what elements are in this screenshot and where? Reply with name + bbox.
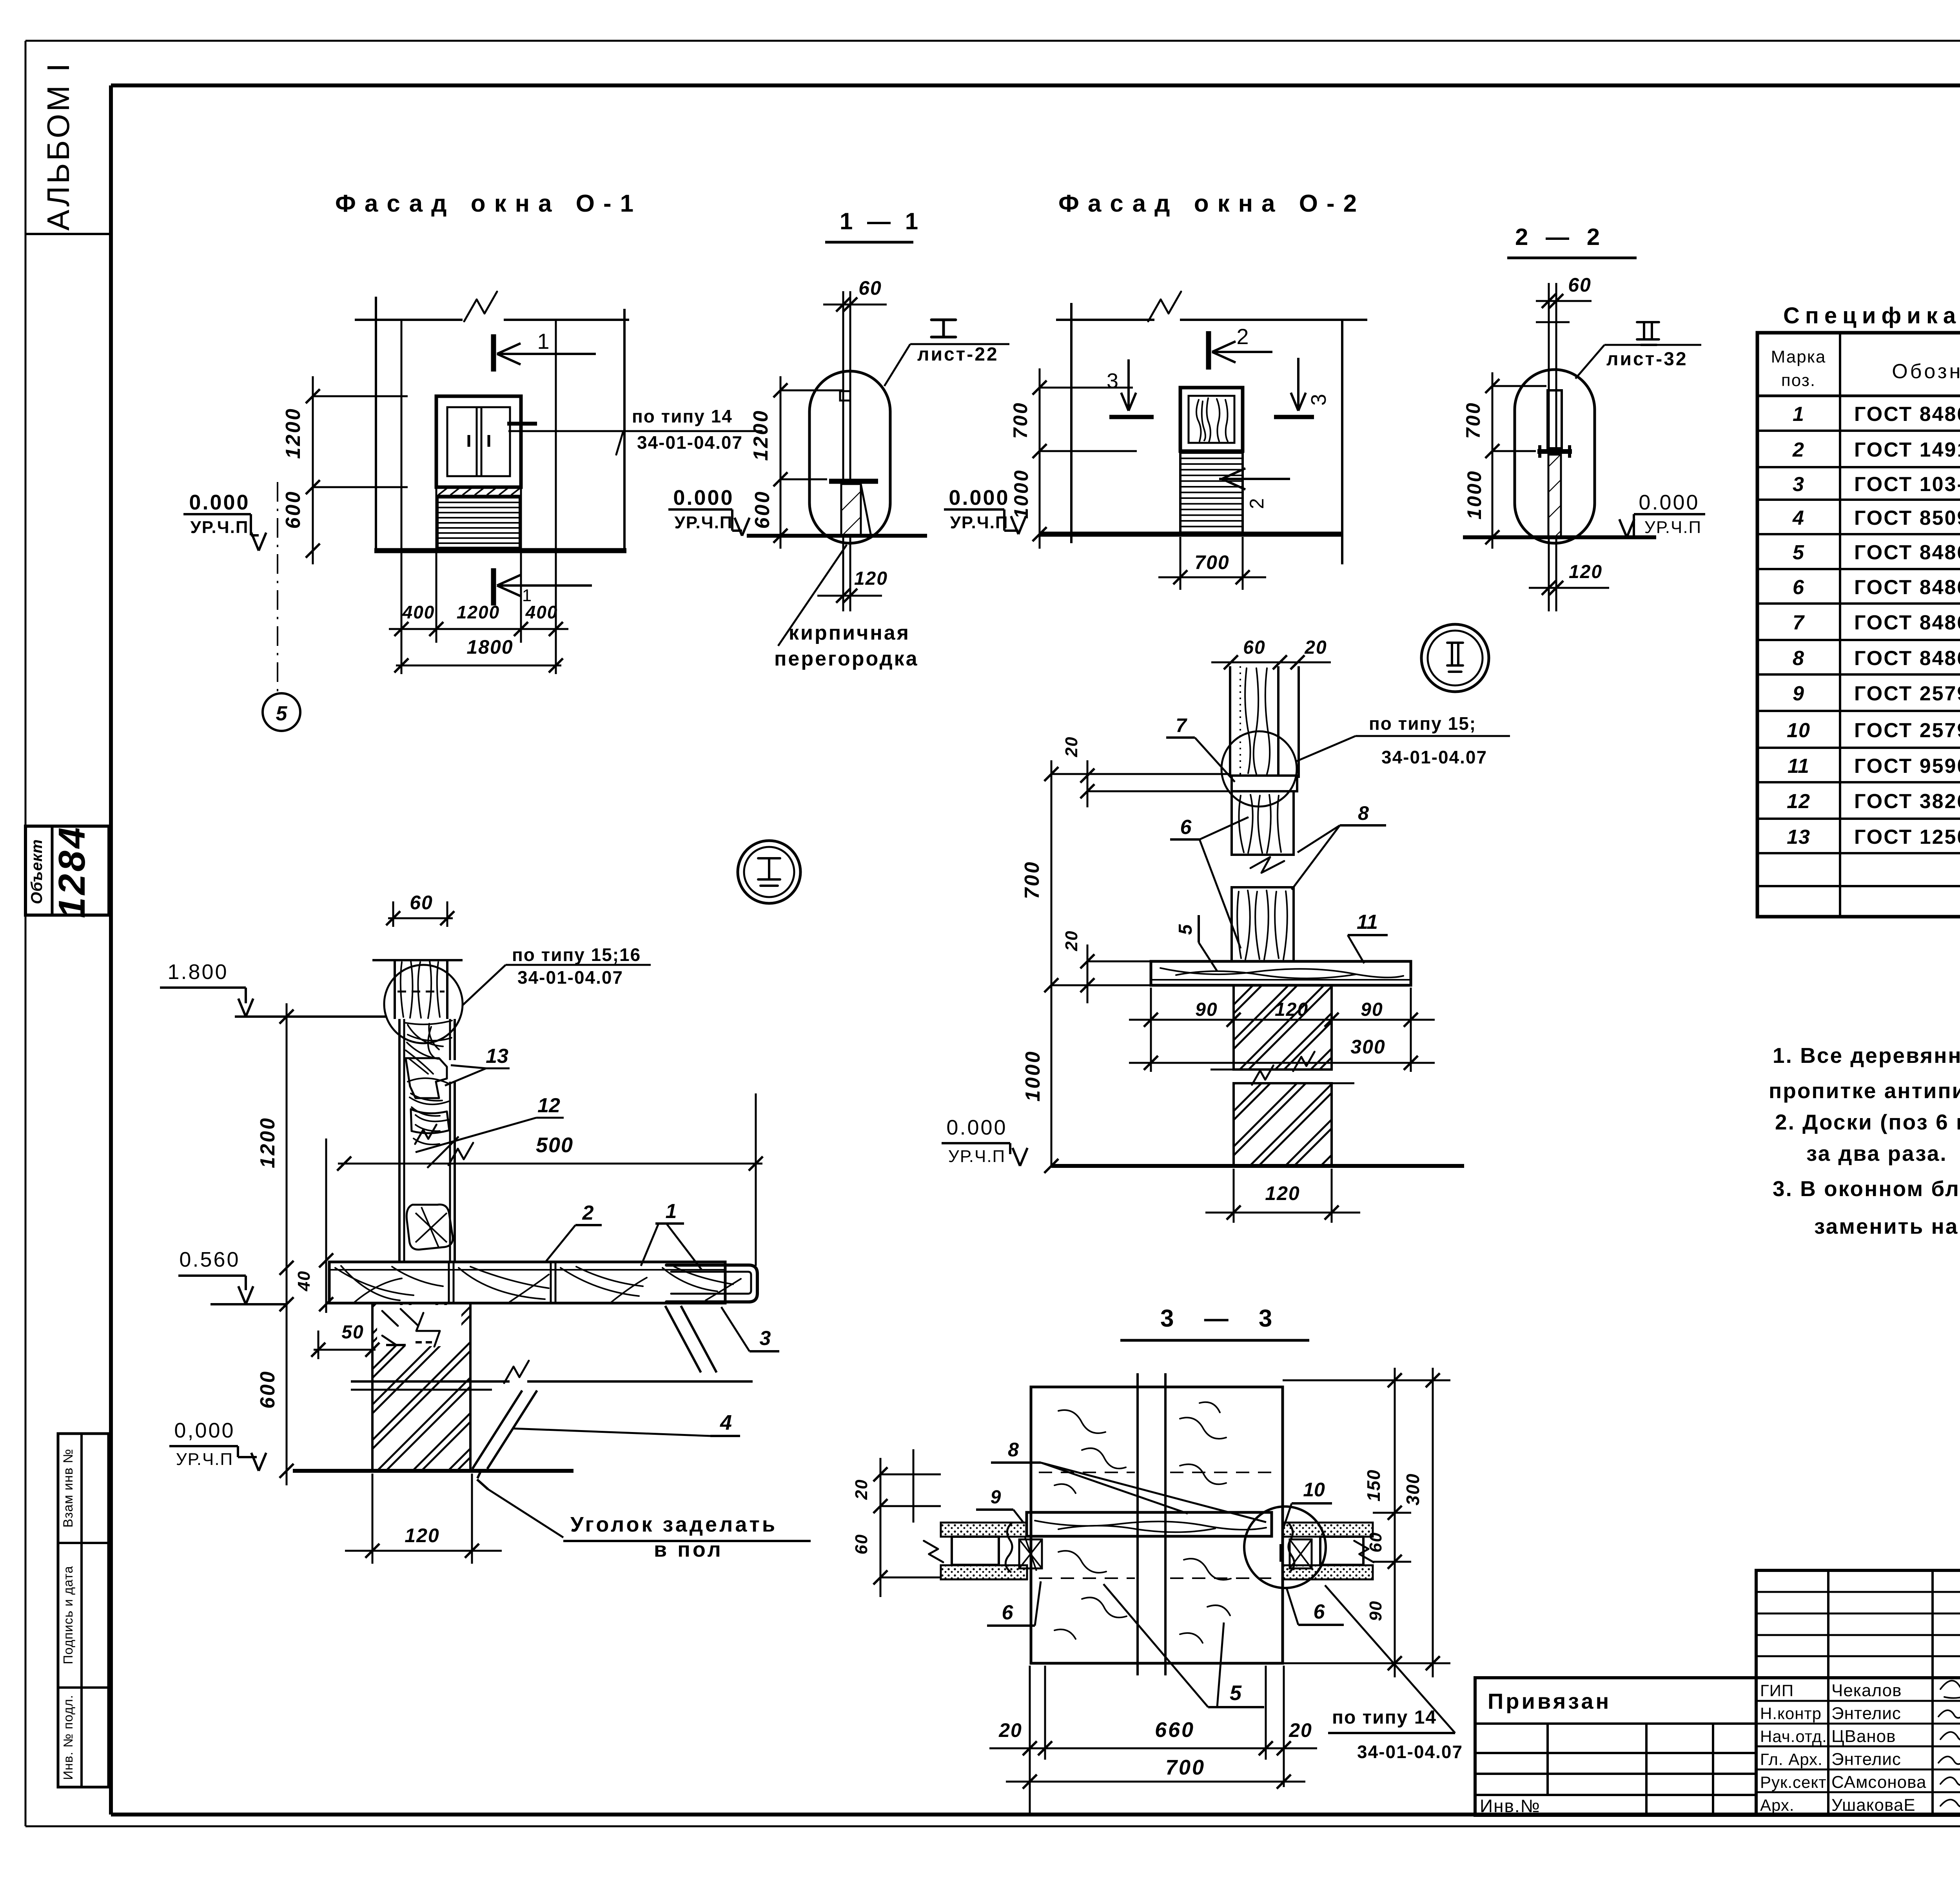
svg-text:Энтелис: Энтелис xyxy=(1831,1704,1901,1723)
facade O-2 bottom dim 700 xyxy=(1180,537,1181,590)
facade O-1 louver panel xyxy=(437,497,520,548)
detail II pier hatch upper xyxy=(1234,985,1332,1070)
svg-text:500: 500 xyxy=(536,1133,573,1157)
svg-text:600: 600 xyxy=(256,1370,279,1409)
axis circle node 5 xyxy=(263,693,300,731)
detail I strut upper piece xyxy=(665,1306,701,1372)
svg-text:9: 9 xyxy=(1793,682,1804,705)
facade O-2 window wood grain xyxy=(1196,400,1201,441)
svg-text:4: 4 xyxy=(720,1411,732,1434)
svg-text:1: 1 xyxy=(1793,403,1804,426)
svg-text:Спецификация элементов на о: Спецификация элементов на окна О-1 и О-2 xyxy=(1783,303,1960,328)
3-3 left wall band bottom xyxy=(941,1565,1027,1579)
detail I lintel top line xyxy=(372,959,463,961)
facade O-2 window frame with glass xyxy=(1180,388,1243,451)
svg-text:Н.контр: Н.контр xyxy=(1760,1704,1822,1723)
facade O-2 mark 3 left arrow xyxy=(1127,359,1130,408)
facade O-2 ground line xyxy=(1040,532,1342,537)
detail I floor lines xyxy=(351,1380,510,1383)
svg-text:1200: 1200 xyxy=(256,1117,279,1168)
svg-text:Арх.: Арх. xyxy=(1760,1796,1795,1815)
svg-text:400: 400 xyxy=(402,602,435,622)
svg-text:6: 6 xyxy=(1314,1601,1325,1623)
svg-text:700: 700 xyxy=(1194,551,1229,573)
detail II top rail board xyxy=(1232,776,1297,791)
svg-text:2: 2 xyxy=(1792,439,1804,461)
svg-text:3 — 3: 3 — 3 xyxy=(1160,1305,1284,1332)
svg-text:ГОСТ 8509-72: ГОСТ 8509-72 xyxy=(1854,507,1960,529)
svg-text:60: 60 xyxy=(410,892,433,914)
detail I latch box lower xyxy=(407,1205,453,1250)
section 2-2 sill T-bar xyxy=(1537,449,1572,454)
facade O-2 section cut 2 top xyxy=(1206,331,1211,370)
facade O-1 sill strip xyxy=(436,487,521,496)
detail I window board (столярная плита) xyxy=(329,1262,725,1303)
svg-text:ГОСТ 8486 -66: ГОСТ 8486 -66 xyxy=(1854,647,1960,670)
facade O-1 left dim line 1200/600 xyxy=(312,376,314,564)
svg-text:120: 120 xyxy=(854,568,888,589)
detail II upper door panel wood xyxy=(1232,791,1294,855)
detail II detail circle xyxy=(1221,731,1297,807)
svg-text:20: 20 xyxy=(1289,1719,1312,1741)
svg-text:1 — 1: 1 — 1 xyxy=(840,208,922,234)
svg-text:9: 9 xyxy=(991,1487,1001,1508)
svg-text:5: 5 xyxy=(1175,924,1196,935)
svg-text:0.000: 0.000 xyxy=(1639,491,1699,514)
3-3 left board end in wall xyxy=(952,1537,999,1565)
svg-text:4: 4 xyxy=(1792,507,1804,529)
svg-text:ГОСТ 8486-66: ГОСТ 8486-66 xyxy=(1854,576,1960,599)
node circle I xyxy=(738,841,800,903)
svg-text:20: 20 xyxy=(852,1479,871,1500)
svg-text:УшаковаЕ: УшаковаЕ xyxy=(1831,1796,1916,1815)
svg-text:1.800: 1.800 xyxy=(167,960,228,984)
svg-text:АЛЬБОМ I: АЛЬБОМ I xyxy=(41,61,76,230)
detail I diagonal strut 4 xyxy=(472,1390,522,1469)
3-3 right wall band top xyxy=(1283,1523,1373,1537)
detail I pier top notch xyxy=(377,1305,461,1346)
svg-text:1000: 1000 xyxy=(1010,469,1032,518)
svg-text:Чекалов: Чекалов xyxy=(1831,1681,1902,1700)
3-3 dashed hidden lines xyxy=(1039,1472,1135,1473)
svg-text:ГОСТ 25797- 83: ГОСТ 25797- 83 xyxy=(1854,719,1960,742)
svg-text:ГОСТ 103- 76: ГОСТ 103- 76 xyxy=(1854,473,1960,496)
facade O-2 left dim 700/1000 xyxy=(1039,368,1041,549)
sheet outer border xyxy=(25,40,1960,42)
svg-text:13: 13 xyxy=(1787,826,1810,848)
svg-text:ГОСТ 9590 - 76: ГОСТ 9590 - 76 xyxy=(1854,755,1960,778)
sidebar АЛЬБОМ I box xyxy=(25,233,111,235)
section 2-2 capsule outline xyxy=(1515,370,1595,543)
svg-text:5: 5 xyxy=(1230,1681,1242,1705)
svg-text:8: 8 xyxy=(1793,647,1804,670)
3-3 glass reflection waves xyxy=(1054,1410,1126,1493)
section 1-1 hinge block xyxy=(840,391,850,401)
3-3 left wall band top xyxy=(941,1523,1027,1537)
svg-text:1200: 1200 xyxy=(457,602,500,622)
svg-text:по типу 15;16: по типу 15;16 xyxy=(512,944,641,965)
detail I wood grain fans upper xyxy=(406,1021,452,1074)
facade O-2 wall right edge xyxy=(1341,320,1343,564)
facade O-2 louver panel xyxy=(1180,453,1243,533)
svg-text:3: 3 xyxy=(760,1327,771,1350)
detail I dim 1200 vertical xyxy=(286,1003,288,1282)
facade O-2 wall left edge xyxy=(1070,303,1073,543)
svg-text:перегородка: перегородка xyxy=(774,647,919,670)
svg-text:УР.Ч.П: УР.Ч.П xyxy=(176,1450,233,1469)
upper small rows table xyxy=(1756,1570,1960,1678)
svg-text:лист-32: лист-32 xyxy=(1606,349,1688,370)
svg-text:60: 60 xyxy=(1366,1532,1385,1553)
section 1-1 window post xyxy=(842,291,844,479)
svg-text:2: 2 xyxy=(1236,324,1249,349)
svg-text:400: 400 xyxy=(525,602,558,622)
section 2-2 callout II лист-32 xyxy=(1637,322,1659,345)
detail I leader уголок xyxy=(477,1479,488,1489)
svg-text:1: 1 xyxy=(537,329,549,353)
svg-text:1000: 1000 xyxy=(1463,470,1485,519)
detail II pier break lines xyxy=(1210,1069,1294,1071)
svg-text:11: 11 xyxy=(1788,755,1809,778)
svg-text:УР.Ч.П: УР.Ч.П xyxy=(674,513,733,532)
facade O-1 window sash divider xyxy=(476,407,478,476)
svg-text:по типу 14: по типу 14 xyxy=(1332,1707,1437,1728)
svg-text:1: 1 xyxy=(666,1200,677,1223)
svg-text:1284: 1284 xyxy=(51,825,93,918)
svg-text:заменить на сетку 05-02Л: заменить на сетку 05-02Л xyxy=(1814,1214,1960,1238)
detail I lintel wood post end grain xyxy=(394,960,396,1019)
svg-text:УР.Ч.П: УР.Ч.П xyxy=(950,513,1008,532)
detail II pier hatch lower xyxy=(1234,1083,1332,1166)
svg-text:кирпичная: кирпичная xyxy=(789,622,910,644)
svg-text:САмсонова: САмсонова xyxy=(1831,1773,1927,1792)
facade O-1 dim extension lines xyxy=(401,320,403,643)
facade O-1 wall right edge xyxy=(623,309,626,551)
svg-text:12: 12 xyxy=(537,1094,560,1117)
svg-text:90: 90 xyxy=(1361,999,1383,1020)
svg-text:пропитке антипиренами.: пропитке антипиренами. xyxy=(1769,1079,1960,1103)
svg-text:0.560: 0.560 xyxy=(179,1248,240,1271)
svg-text:1800: 1800 xyxy=(466,636,513,658)
svg-text:6: 6 xyxy=(1180,816,1192,839)
svg-text:20: 20 xyxy=(998,1719,1022,1741)
svg-text:0,000: 0,000 xyxy=(174,1419,235,1442)
facade O-2 section cut 2 bottom (into louver) xyxy=(1219,478,1290,480)
svg-text:Инв. № подл.: Инв. № подл. xyxy=(61,1695,75,1780)
svg-text:6: 6 xyxy=(1793,576,1804,599)
svg-text:0.000: 0.000 xyxy=(949,486,1009,509)
svg-text:600: 600 xyxy=(282,490,305,529)
svg-text:150: 150 xyxy=(1363,1469,1384,1502)
svg-text:ГОСТ 14918-80: ГОСТ 14918-80 xyxy=(1854,439,1960,461)
facade O-1 section cut 1 top xyxy=(491,334,496,372)
svg-text:700: 700 xyxy=(1165,1756,1205,1779)
svg-text:ЦВанов: ЦВанов xyxy=(1831,1727,1896,1746)
svg-text:300: 300 xyxy=(1350,1036,1385,1058)
section 1-1 sill bar xyxy=(829,479,878,484)
svg-text:40: 40 xyxy=(294,1271,314,1292)
section 2-2 dim 120 bottom xyxy=(1548,537,1550,611)
facade O-1 bottom dim 1800 xyxy=(396,665,561,667)
3-3 bottom dims 20/660/20 xyxy=(1029,1666,1031,1815)
svg-text:2. Доски (поз 6 и 7) покрыт: 2. Доски (поз 6 и 7) покрыть лаком светл… xyxy=(1775,1110,1960,1134)
section 1-1 capsule outline xyxy=(809,371,890,543)
detail I dim 600 xyxy=(286,1282,288,1485)
3-3 glass panel outline xyxy=(1031,1387,1283,1663)
svg-text:0.000: 0.000 xyxy=(189,491,250,514)
3-3 right frame profile with cross xyxy=(1290,1539,1312,1568)
svg-text:Взам инв №: Взам инв № xyxy=(61,1448,76,1528)
facade O-2 mark 3 right arrow xyxy=(1297,358,1299,408)
svg-text:ГОСТ 8486 - 66: ГОСТ 8486 - 66 xyxy=(1854,611,1960,634)
svg-text:700: 700 xyxy=(1021,861,1044,899)
node circle II xyxy=(1421,624,1489,692)
svg-text:60: 60 xyxy=(1243,637,1265,658)
svg-text:6: 6 xyxy=(1002,1601,1014,1624)
svg-text:3: 3 xyxy=(1793,473,1804,496)
detail II break zigzag xyxy=(1250,857,1284,873)
svg-text:90: 90 xyxy=(1195,999,1218,1020)
3-3 center mullion xyxy=(1136,1373,1139,1675)
svg-text:ГОСТ 8486-66: ГОСТ 8486-66 xyxy=(1854,541,1960,564)
3-3 left frame profile with cross xyxy=(1005,1523,1012,1572)
section 2-2 hatched post below xyxy=(1548,455,1561,537)
facade O-1 section cut 1 bottom xyxy=(491,568,496,605)
facade O-1 opening mark xyxy=(507,422,537,426)
svg-text:60: 60 xyxy=(852,1534,871,1555)
svg-text:3: 3 xyxy=(1307,394,1330,406)
facade O-1 wall left edge xyxy=(375,297,377,551)
sheet inner frame xyxy=(111,83,1960,87)
svg-text:Обозначение: Обозначение xyxy=(1892,360,1960,383)
section 1-1 left dim 1200/600 xyxy=(780,376,782,549)
svg-text:50: 50 xyxy=(341,1322,364,1343)
svg-text:660: 660 xyxy=(1155,1718,1195,1742)
detail I window frame post xyxy=(398,1019,401,1263)
svg-text:34-01-04.07: 34-01-04.07 xyxy=(1381,747,1487,767)
detail II left dims 20/700/20/1000 xyxy=(1051,760,1053,1166)
svg-text:ГОСТ 25797-83: ГОСТ 25797-83 xyxy=(1854,682,1960,705)
svg-text:3. В оконном блоке СВ012-12: 3. В оконном блоке СВ012-12 /окно О-1/ с… xyxy=(1773,1177,1960,1201)
svg-text:8: 8 xyxy=(1008,1439,1019,1461)
svg-text:2 — 2: 2 — 2 xyxy=(1515,224,1605,250)
svg-text:3: 3 xyxy=(1107,369,1118,393)
svg-text:60: 60 xyxy=(858,277,882,299)
facade O-1 sash handle marks xyxy=(468,435,470,447)
svg-text:2: 2 xyxy=(582,1202,594,1224)
svg-text:120: 120 xyxy=(1569,562,1602,582)
3-3 detail circle right xyxy=(1244,1506,1326,1588)
svg-text:УР.Ч.П: УР.Ч.П xyxy=(1644,518,1702,537)
svg-text:700: 700 xyxy=(1462,401,1484,439)
svg-text:Объект: Объект xyxy=(28,839,45,904)
detail I latch profile 13 xyxy=(406,1058,447,1098)
section 1-1 callout I лист-22 xyxy=(931,320,956,337)
facade O-1 bottom dim chain 400-1200-400 xyxy=(389,628,568,630)
svg-text:90: 90 xyxy=(1366,1601,1385,1621)
facade O-2 wall top line xyxy=(1056,319,1154,321)
svg-text:поз.: поз. xyxy=(1781,371,1816,390)
svg-text:1000: 1000 xyxy=(1022,1050,1044,1102)
facade O-1 ground line xyxy=(374,548,626,553)
svg-text:Инв.№: Инв.№ xyxy=(1480,1796,1541,1816)
detail II lower door panel wood xyxy=(1232,887,1294,961)
svg-text:по типу 14: по типу 14 xyxy=(632,406,733,426)
svg-text:1200: 1200 xyxy=(750,409,772,461)
axis line for node 5 xyxy=(277,482,278,693)
detail I board grain arcs xyxy=(335,1266,443,1302)
section 1-1 leader кирпичная перегородка xyxy=(778,545,847,646)
svg-text:Рук.сект: Рук.сект xyxy=(1760,1773,1827,1791)
svg-text:600: 600 xyxy=(751,490,774,529)
section 2-2 ground line xyxy=(1463,535,1656,539)
svg-text:7: 7 xyxy=(1793,611,1805,634)
detail I break in post xyxy=(415,1125,437,1144)
section 2-2 left dim 700/1000 xyxy=(1492,372,1494,549)
svg-text:300: 300 xyxy=(1403,1473,1423,1506)
svg-text:Гл. Арх.: Гл. Арх. xyxy=(1760,1750,1823,1769)
svg-text:120: 120 xyxy=(1275,999,1308,1020)
svg-text:Привязан: Привязан xyxy=(1488,1689,1611,1713)
svg-text:УР.Ч.П: УР.Ч.П xyxy=(948,1147,1005,1166)
section 2-2 frame block xyxy=(1548,390,1562,448)
svg-text:10: 10 xyxy=(1303,1479,1325,1501)
svg-text:ГОСТ 3826- 82: ГОСТ 3826- 82 xyxy=(1854,790,1960,813)
sidebar Объект 1284 box xyxy=(25,826,109,915)
detail I dim 120 bottom xyxy=(372,1474,374,1564)
detail I detail circle on head xyxy=(384,965,463,1043)
3-3 horizontal shelf strip xyxy=(1027,1512,1272,1536)
svg-text:20: 20 xyxy=(1062,930,1081,952)
svg-text:12: 12 xyxy=(1787,790,1810,813)
section 1-1 dim 120 bottom xyxy=(842,536,844,611)
svg-text:60: 60 xyxy=(1568,274,1592,296)
section 1-1 ground line xyxy=(747,534,927,538)
facade O-1 window frame xyxy=(436,396,521,487)
svg-text:ГОСТ 12506-81: ГОСТ 12506-81 xyxy=(1854,826,1960,848)
svg-text:Уголок заделать: Уголок заделать xyxy=(570,1513,777,1536)
svg-text:7: 7 xyxy=(1176,714,1187,736)
svg-text:5: 5 xyxy=(276,702,288,725)
svg-text:2: 2 xyxy=(1246,498,1268,509)
svg-text:ГИП: ГИП xyxy=(1760,1681,1794,1700)
svg-text:34-01-04.07: 34-01-04.07 xyxy=(1357,1742,1463,1762)
section 1-1 brick post below sill xyxy=(841,484,861,536)
detail I board end steel channel 1 xyxy=(666,1265,757,1302)
detail II shelf board 5/11 xyxy=(1151,961,1411,985)
svg-text:лист-22: лист-22 xyxy=(917,344,999,365)
svg-text:ГОСТ 8486- 66: ГОСТ 8486- 66 xyxy=(1854,403,1960,426)
detail I dim 40 xyxy=(325,1138,327,1313)
3-3 left dims 20/60 xyxy=(880,1458,882,1597)
svg-text:8: 8 xyxy=(1358,802,1369,824)
svg-text:0.000: 0.000 xyxy=(673,486,734,509)
svg-text:34-01-04.07: 34-01-04.07 xyxy=(637,432,743,453)
svg-text:1200: 1200 xyxy=(282,407,305,459)
signatures squiggles xyxy=(1940,1679,1960,1698)
svg-text:Нач.отд.: Нач.отд. xyxy=(1760,1727,1827,1746)
svg-text:Подпись и дата: Подпись и дата xyxy=(61,1566,75,1664)
section 2-2 window post xyxy=(1548,283,1550,448)
3-3 right board end in wall xyxy=(1320,1537,1363,1565)
detail II ground line xyxy=(1051,1164,1464,1168)
svg-text:за два раза.: за два раза. xyxy=(1806,1141,1947,1166)
svg-text:5: 5 xyxy=(1793,541,1804,564)
svg-text:УР.Ч.П: УР.Ч.П xyxy=(190,518,249,537)
svg-text:0.000: 0.000 xyxy=(946,1116,1007,1139)
spec table grid xyxy=(1757,333,1960,917)
svg-text:Марка: Марка xyxy=(1771,347,1826,366)
detail I ground line 0.000 xyxy=(293,1469,573,1473)
detail II dim 120 bottom xyxy=(1233,1169,1235,1223)
svg-text:20: 20 xyxy=(1304,637,1327,658)
svg-text:Фасад окна О-1: Фасад окна О-1 xyxy=(335,190,642,217)
svg-text:по типу 15;: по типу 15; xyxy=(1369,713,1476,734)
detail II door post xyxy=(1229,666,1231,776)
sidebar bottom stamp boxes xyxy=(58,1434,109,1787)
svg-text:20: 20 xyxy=(1062,736,1081,758)
svg-text:Фасад окна О-2: Фасад окна О-2 xyxy=(1058,190,1365,217)
svg-text:120: 120 xyxy=(1265,1182,1300,1204)
detail I brick pier hatched xyxy=(372,1303,470,1471)
svg-text:700: 700 xyxy=(1009,401,1031,439)
facade O-1 wall top line xyxy=(355,319,463,321)
svg-text:1. Все деревянные элементы: 1. Все деревянные элементы подвергнуть г… xyxy=(1773,1043,1960,1068)
svg-text:120: 120 xyxy=(405,1525,439,1546)
3-3 hook mark 10 xyxy=(1279,1544,1283,1562)
svg-text:11: 11 xyxy=(1357,911,1378,934)
revision table (Привязан) xyxy=(1475,1678,1756,1815)
svg-text:в пол: в пол xyxy=(654,1538,723,1561)
svg-text:Энтелис: Энтелис xyxy=(1831,1750,1901,1769)
detail II dims 90 120 90 xyxy=(1150,988,1152,1031)
signature table xyxy=(1756,1678,1960,1815)
svg-text:10: 10 xyxy=(1787,719,1810,742)
3-3 right wall band bottom xyxy=(1283,1565,1373,1579)
svg-text:34-01-04.07: 34-01-04.07 xyxy=(517,967,623,988)
3-3 right dims 150/60/90/300 xyxy=(1394,1368,1396,1677)
svg-text:13: 13 xyxy=(486,1045,508,1068)
